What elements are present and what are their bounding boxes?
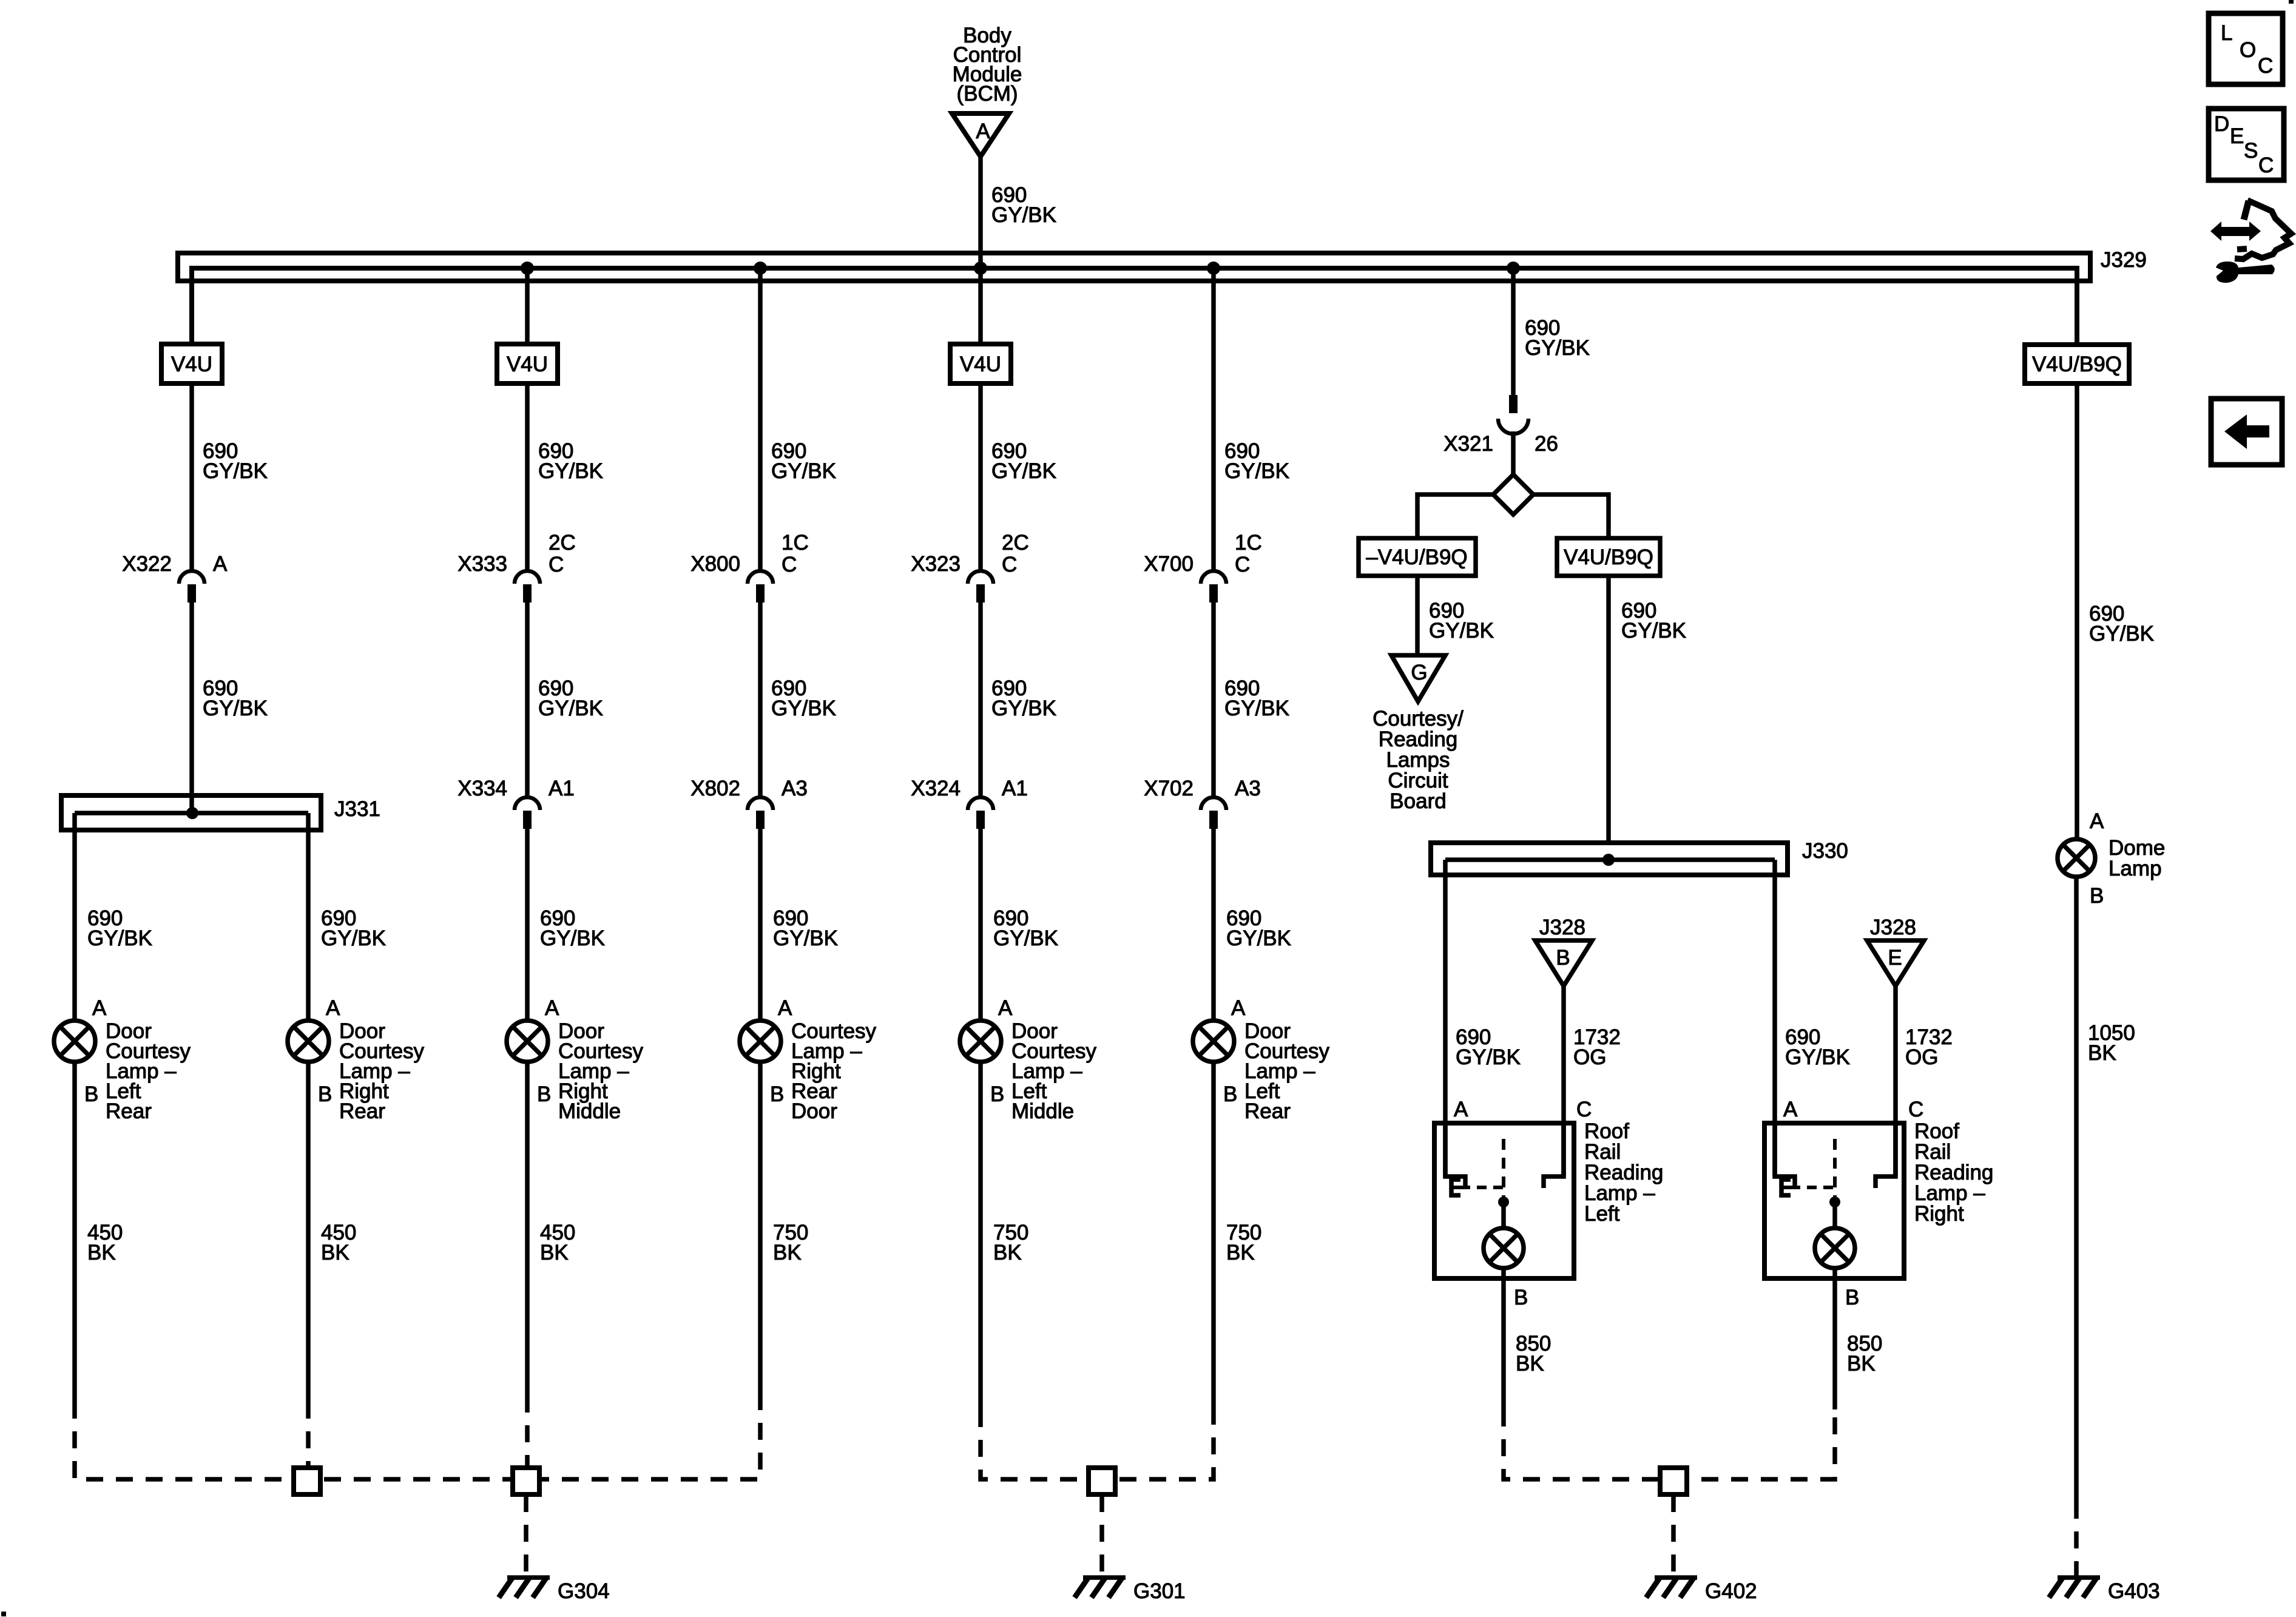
component box: Roof Rail Reading Lamp (Roof Rail Reading Lamp - Right) [1764, 1119, 1993, 1278]
lamp: Door Courtesy Lamp - Right Middle [507, 996, 644, 1123]
wire: X800 to X802, 690 GY/BK [760, 603, 836, 796]
svg-text:E: E [1888, 946, 1902, 970]
junction square above ground G402 [1660, 1468, 1687, 1494]
wire: roof lamp pin B, 850 BK [1835, 1268, 1882, 1409]
svg-text:X334: X334 [458, 777, 507, 800]
svg-text:X321: X321 [1443, 432, 1493, 456]
svg-text:2C: 2C [549, 531, 576, 555]
svg-text:Middle: Middle [1011, 1099, 1074, 1123]
connector X322 [122, 552, 228, 603]
junction dots on J329 bus [521, 262, 1520, 275]
wire: J329 to connector X700, 690 GY/BK, column 5 [1214, 271, 1289, 570]
junction square above ground G304 [513, 1468, 539, 1494]
wire: J330 to roof lamp pin A, 690 GY/BK [1445, 860, 1521, 1176]
svg-text:BK: BK [1226, 1241, 1255, 1264]
wire: down to door courtesy lamp at x=869, 690 GY/BK [527, 829, 605, 1021]
lamp inside roof rail module [1484, 1202, 1524, 1268]
wire: dashed stub to ground G304 [524, 1495, 528, 1577]
connector X802 [690, 777, 808, 829]
svg-text:C: C [549, 553, 564, 576]
svg-text:GY/BK: GY/BK [771, 697, 836, 720]
wire: J330 to roof lamp pin A, 690 GY/BK [1775, 860, 1850, 1176]
wire: V4U/B9Q to dome lamp, 690 GY/BK [2077, 383, 2154, 840]
junction dot on J330 [1602, 854, 1615, 866]
lamp: Courtesy Lamp - Right Rear Door [740, 996, 877, 1123]
wire: down to door courtesy lamp at x=508, 690 GY/BK [308, 813, 386, 1021]
svg-text:G403: G403 [2108, 1579, 2160, 1603]
svg-text:X800: X800 [690, 552, 740, 576]
fuse box V4U, column 4 [950, 344, 1011, 383]
svg-text:GY/BK: GY/BK [321, 927, 386, 950]
icon: back arrow box [2211, 399, 2282, 465]
wire: dashed stub to ground G403 [2074, 1502, 2079, 1577]
wire: V4U to connector X333, 690 GY/BK [527, 383, 603, 570]
svg-text:X323: X323 [911, 552, 961, 576]
lamp: Door Courtesy Lamp - Left Middle [960, 996, 1097, 1123]
svg-text:C: C [1576, 1098, 1592, 1121]
svg-text:C: C [2258, 154, 2274, 177]
wire: J328 to roof lamp pin C, 1732 OG [1564, 986, 1621, 1176]
svg-text:C: C [2258, 54, 2273, 78]
svg-text:X322: X322 [122, 552, 172, 576]
wire: dashed stub to ground G301 [1099, 1495, 1104, 1577]
wire: J329 to fuse V4U, column 1 [189, 271, 194, 344]
svg-text:BK: BK [993, 1241, 1022, 1264]
fuse box -V4U/B9Q [1359, 538, 1476, 576]
wire: lamp pin B, 450 BK [75, 1062, 123, 1402]
svg-text:B: B [770, 1082, 784, 1106]
svg-text:GY/BK: GY/BK [991, 459, 1056, 483]
junction square above ground G301 [1089, 1468, 1115, 1494]
svg-text:(BCM): (BCM) [956, 82, 1018, 106]
wire: BCM pin A to splice J329, circuit 690 GY/BK [981, 157, 1056, 268]
svg-text:G: G [1411, 661, 1427, 684]
svg-text:J328: J328 [1870, 916, 1916, 939]
wire: J329 to fuse V4U, column 4 [978, 271, 983, 344]
svg-text:A: A [213, 552, 228, 576]
svg-text:J328: J328 [1539, 916, 1585, 939]
svg-text:1C: 1C [782, 531, 809, 555]
svg-text:G301: G301 [1133, 1579, 1186, 1603]
svg-text:GY/BK: GY/BK [538, 697, 603, 720]
svg-text:A3: A3 [782, 777, 808, 800]
lamp: Door Courtesy Lamp - Left Rear [54, 996, 191, 1123]
svg-text:GY/BK: GY/BK [1429, 619, 1494, 643]
svg-text:V4U/B9Q: V4U/B9Q [2032, 353, 2122, 376]
svg-text:–V4U/B9Q: –V4U/B9Q [1366, 545, 1467, 569]
svg-text:BK: BK [1847, 1352, 1876, 1376]
icon: LOC box [2209, 13, 2283, 84]
svg-text:OG: OG [1905, 1045, 1938, 1069]
svg-text:B: B [1556, 946, 1570, 970]
icon: DESC box [2209, 109, 2284, 180]
splice pack J329 outline [178, 248, 2147, 281]
connector X333 [458, 531, 576, 603]
svg-text:C: C [1908, 1098, 1923, 1121]
junction square on G304 net [294, 1468, 320, 1494]
wire: X323 to X324, 690 GY/BK [981, 603, 1056, 796]
svg-text:BK: BK [2088, 1041, 2116, 1065]
splice diamond [1493, 474, 1533, 515]
svg-text:BK: BK [87, 1241, 116, 1264]
icon: connector service (double arrow, outline, wrench) [2210, 200, 2291, 283]
wire: diamond to -V4U/B9Q fuse [1417, 495, 1493, 538]
wire: lamp pin B, 450 BK [308, 1062, 356, 1402]
svg-text:GY/BK: GY/BK [771, 459, 836, 483]
svg-text:X700: X700 [1144, 552, 1194, 576]
svg-text:Board: Board [1389, 789, 1446, 813]
wire dashed net to G402 [1504, 1409, 1835, 1479]
svg-text:A: A [1231, 996, 1246, 1020]
switch contact hooks inside module [1445, 1123, 1564, 1188]
svg-text:GY/BK: GY/BK [1456, 1045, 1521, 1069]
connector X700 [1144, 531, 1262, 603]
splice pack J330 outline [1431, 839, 1848, 875]
svg-text:GY/BK: GY/BK [1621, 619, 1686, 643]
svg-text:A: A [92, 996, 107, 1020]
svg-text:A1: A1 [1002, 777, 1028, 800]
wire: down to door courtesy lamp at x=123, 690 GY/BK [75, 813, 152, 1021]
wire: X321 to splice diamond [1511, 431, 1516, 474]
splice pack J331 outline [61, 795, 380, 830]
wire: J328 to roof lamp pin C, 1732 OG [1896, 986, 1953, 1176]
svg-text:GY/BK: GY/BK [203, 459, 268, 483]
fuse box V4U, column 2 [497, 344, 558, 383]
svg-text:B: B [84, 1082, 98, 1106]
lamp inside roof rail module [1815, 1202, 1855, 1268]
wire: X333 to X334, 690 GY/BK [527, 603, 603, 796]
wire: -V4U/B9Q to G triangle, 690 GY/BK [1417, 576, 1494, 655]
svg-text:A: A [545, 996, 559, 1020]
connector X334 [458, 777, 575, 829]
wire: X700 to X702, 690 GY/BK [1214, 603, 1289, 796]
svg-text:B: B [1845, 1286, 1859, 1309]
svg-text:OG: OG [1573, 1045, 1606, 1069]
component box: Roof Rail Reading Lamp (Roof Rail Reading Lamp - Left) [1434, 1119, 1663, 1278]
svg-text:GY/BK: GY/BK [991, 203, 1056, 227]
svg-text:V4U: V4U [171, 353, 212, 376]
svg-text:E: E [2230, 124, 2244, 148]
svg-text:V4U: V4U [960, 353, 1001, 376]
ground G301 [1075, 1578, 1186, 1603]
lamp: Door Courtesy Lamp - Left Rear [1193, 996, 1330, 1123]
wire: J329 to connector X800, 690 GY/BK, column 3 [760, 271, 836, 570]
svg-text:GY/BK: GY/BK [2089, 622, 2154, 646]
wire: dashed stub to ground G402 [1671, 1495, 1676, 1577]
fuse box V4U, column 1 [161, 344, 222, 383]
svg-text:BK: BK [1516, 1352, 1544, 1376]
svg-text:G304: G304 [558, 1579, 610, 1603]
wire: lamp pin B, 450 BK [527, 1062, 575, 1396]
svg-text:Lamp: Lamp [2109, 857, 2162, 880]
svg-text:B: B [1514, 1286, 1528, 1309]
ground G403 [2049, 1578, 2160, 1603]
svg-text:X802: X802 [690, 777, 740, 800]
svg-text:A3: A3 [1235, 777, 1261, 800]
wire: lamp pin B, 750 BK [981, 1062, 1028, 1410]
connector X323 [911, 531, 1029, 603]
svg-text:A: A [976, 120, 990, 143]
ground G402 [1646, 1578, 1757, 1603]
svg-text:26: 26 [1535, 432, 1558, 456]
svg-text:2C: 2C [1002, 531, 1029, 555]
svg-text:V4U: V4U [507, 353, 548, 376]
svg-text:J329: J329 [2101, 248, 2147, 272]
connector X702 [1144, 777, 1261, 829]
switch contact hooks inside module [1775, 1123, 1896, 1188]
fuse box V4U/B9Q (center) [1557, 538, 1660, 576]
svg-text:BK: BK [540, 1241, 569, 1264]
ground G304 [499, 1578, 610, 1603]
connector triangle G to Courtesy/Reading Lamps Circuit Board [1391, 655, 1445, 701]
connector X324 [911, 777, 1028, 829]
wire: V4U to connector X322, 690 GY/BK [192, 383, 268, 570]
node: Courtesy/Reading Lamps Circuit Board label [1373, 707, 1464, 813]
svg-text:Left: Left [1584, 1202, 1620, 1226]
svg-text:A1: A1 [549, 777, 575, 800]
svg-text:A: A [998, 996, 1013, 1020]
svg-text:Middle: Middle [558, 1099, 621, 1123]
svg-text:GY/BK: GY/BK [203, 697, 268, 720]
wire: down to door courtesy lamp at x=1253, 690 GY/BK [760, 829, 838, 1021]
svg-text:J331: J331 [334, 797, 380, 821]
svg-text:C: C [782, 553, 797, 576]
junction dot inside module [1498, 1197, 1509, 1207]
connector triangle A to BCM [952, 113, 1009, 157]
wire: roof lamp pin B, 850 BK [1504, 1268, 1551, 1409]
wire: lamp pin B, 750 BK [1214, 1062, 1261, 1410]
wire: J329 to fuse V4U/B9Q (right) [2075, 271, 2079, 345]
fuse box V4U/B9Q (right) [2025, 345, 2129, 383]
wire: J329 to connector X321, 690 GY/BK [1513, 271, 1590, 396]
svg-text:Rear: Rear [1244, 1099, 1291, 1123]
connector X321 pin 26 [1443, 395, 1558, 456]
svg-text:V4U/B9Q: V4U/B9Q [1564, 545, 1653, 569]
svg-text:GY/BK: GY/BK [1226, 927, 1291, 950]
svg-text:1C: 1C [1235, 531, 1262, 555]
svg-text:GY/BK: GY/BK [1785, 1045, 1850, 1069]
svg-text:L: L [2221, 21, 2232, 45]
wire: dome lamp pin B, 1050 BK [2076, 877, 2135, 1502]
lamp: Dome Lamp [2058, 836, 2165, 880]
wire: J329 to fuse V4U, column 2 [525, 271, 530, 344]
svg-text:Rear: Rear [339, 1099, 385, 1123]
svg-text:Rear: Rear [106, 1099, 152, 1123]
svg-text:C: C [1235, 553, 1250, 576]
svg-text:GY/BK: GY/BK [1224, 697, 1289, 720]
connector X800 [690, 531, 809, 603]
svg-text:BK: BK [321, 1241, 349, 1264]
wire: down to door courtesy lamp at x=1616, 690 GY/BK [981, 829, 1058, 1021]
switch actuator (dashed linkage + E bracket) [1781, 1139, 1835, 1197]
svg-text:GY/BK: GY/BK [540, 927, 605, 950]
wire: J329 internal bus [192, 268, 2077, 345]
svg-text:A: A [1454, 1098, 1468, 1121]
svg-text:A: A [1783, 1098, 1798, 1121]
svg-text:X324: X324 [911, 777, 961, 800]
svg-text:GY/BK: GY/BK [773, 927, 838, 950]
svg-text:Right: Right [1914, 1202, 1964, 1226]
svg-text:B: B [990, 1082, 1004, 1106]
wire: lamp pin B, 750 BK [760, 1062, 808, 1410]
svg-text:O: O [2240, 38, 2256, 62]
svg-text:Door: Door [791, 1099, 837, 1123]
wire: V4U/B9Q to splice J330, 690 GY/BK [1609, 576, 1686, 843]
svg-text:GY/BK: GY/BK [87, 927, 152, 950]
svg-text:B: B [1223, 1082, 1237, 1106]
svg-text:B: B [318, 1082, 332, 1106]
svg-text:GY/BK: GY/BK [993, 927, 1058, 950]
junction dot inside module [1829, 1197, 1840, 1207]
wire (unnamed ground distribution) to G304: dashed net [75, 1396, 760, 1479]
svg-text:B: B [537, 1082, 551, 1106]
svg-text:GY/BK: GY/BK [991, 697, 1056, 720]
svg-text:J330: J330 [1802, 839, 1848, 863]
svg-text:GY/BK: GY/BK [538, 459, 603, 483]
connector triangle J328 pin E [1867, 916, 1924, 986]
svg-text:X333: X333 [458, 552, 507, 576]
svg-text:X702: X702 [1144, 777, 1194, 800]
wire: V4U to connector X323, 690 GY/BK [981, 383, 1056, 570]
svg-text:S: S [2244, 139, 2258, 163]
wire: J330 internal bus [1445, 857, 1775, 862]
wire dashed net to G301 [981, 1410, 1214, 1479]
wire: diamond to V4U/B9Q fuse [1533, 495, 1609, 538]
lamp: Door Courtesy Lamp - Right Rear [288, 996, 425, 1123]
svg-text:D: D [2214, 112, 2229, 136]
svg-text:BK: BK [773, 1241, 802, 1264]
svg-text:G402: G402 [1705, 1579, 1757, 1603]
svg-text:A: A [2090, 809, 2104, 833]
wire: J331 internal bus [75, 811, 308, 815]
svg-text:B: B [2090, 884, 2104, 908]
svg-text:GY/BK: GY/BK [1525, 336, 1590, 360]
svg-text:A: A [778, 996, 792, 1020]
connector triangle J328 pin B [1535, 916, 1592, 986]
junction dot on J331 [186, 807, 198, 819]
svg-text:GY/BK: GY/BK [1224, 459, 1289, 483]
node: Body Control Module (BCM) label [953, 24, 1022, 106]
wire: down to door courtesy lamp at x=2000, 690 GY/BK [1214, 829, 1291, 1021]
wire: X322 to splice J331 [192, 603, 268, 813]
switch actuator (dashed linkage + E bracket) [1451, 1139, 1504, 1197]
svg-text:C: C [1002, 553, 1017, 576]
svg-text:A: A [326, 996, 340, 1020]
